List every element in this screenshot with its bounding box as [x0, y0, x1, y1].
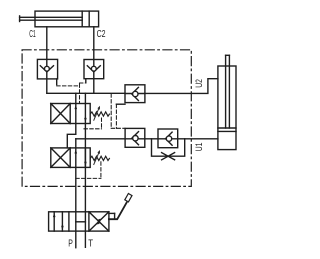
check valve CV1 [37, 59, 57, 79]
wire P column (valve V2 to hand valve) [75, 167, 77, 247]
hand valve HV1 (3-position, lever operated) [49, 212, 109, 231]
relief valve RV2 (spring + adjust arrow) [90, 150, 109, 165]
wire C1 (port C1 down to check valve CV1 and main node) [46, 27, 48, 93]
pilot line (dashed) CV1 to valve V1 [57, 83, 86, 104]
wire U2 line (CV3 to right cylinder) [145, 79, 218, 94]
pilot drain RV2 (dashed) [76, 162, 101, 179]
svg-text:U1: U1 [194, 143, 205, 152]
wire riser T to valve V1 top [84, 93, 86, 103]
check valve CV2 [84, 60, 104, 79]
wire valve V1 A-port jog to valve V2 [67, 124, 76, 148]
wire U1 line (valve V2 to CV4, CV5, right cylinder) [76, 138, 218, 140]
cylinder CYL1 (horizontal, top-left) [20, 11, 99, 27]
relief valve RV1 (spring + adjust arrow) [90, 106, 109, 121]
svg-text:U2: U2 [194, 79, 205, 88]
svg-text:P: P [68, 237, 73, 249]
check valve CV5 [158, 129, 178, 148]
bypass loop with plug (closed throttle) [152, 139, 185, 160]
wire main line A (C-side gallery) [47, 92, 125, 94]
svg-text:C1: C1 [29, 28, 36, 40]
pilot stub from CV1 [56, 79, 58, 85]
wire riser to valve V2 top [75, 139, 77, 148]
wire riser P to valve V1 top [75, 93, 77, 103]
wire T-line (valve V1 through valve V2 to hand valve) [84, 124, 86, 248]
pilot stub CV3 [116, 103, 125, 105]
svg-text:T: T [88, 237, 93, 249]
valve V1 (2-position directional) [51, 104, 90, 124]
wire C2 (port C2 down to check valve CV2 and main node) [93, 27, 95, 94]
check valve CV4 [125, 128, 145, 147]
check valve CV3 [125, 85, 145, 103]
cylinder CYL2 (vertical, right) [218, 55, 236, 149]
svg-text:C2: C2 [97, 28, 106, 40]
pilot stub from CV2 [85, 79, 87, 83]
pilot drain RV1 (dashed) [84, 118, 102, 129]
lever of hand valve [109, 194, 132, 220]
enclosure (manifold boundary, dash-dot) [22, 50, 191, 187]
valve V2 (2-position directional) [51, 148, 90, 168]
pilot line (dashed) to CV4 [111, 94, 125, 129]
